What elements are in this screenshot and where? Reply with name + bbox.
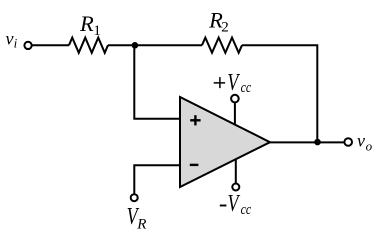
svg-text:cc: cc (241, 80, 252, 96)
svg-text:2: 2 (221, 19, 229, 35)
svg-text:v: v (6, 29, 14, 49)
svg-text:o: o (366, 139, 373, 154)
svg-text:V: V (228, 191, 241, 217)
svg-text:R: R (136, 216, 146, 232)
svg-text:1: 1 (93, 23, 101, 39)
svg-text:v: v (357, 130, 365, 150)
svg-text:V: V (227, 70, 240, 96)
svg-text:R: R (79, 11, 94, 36)
svg-text:cc: cc (241, 202, 252, 218)
svg-text:i: i (14, 35, 18, 50)
